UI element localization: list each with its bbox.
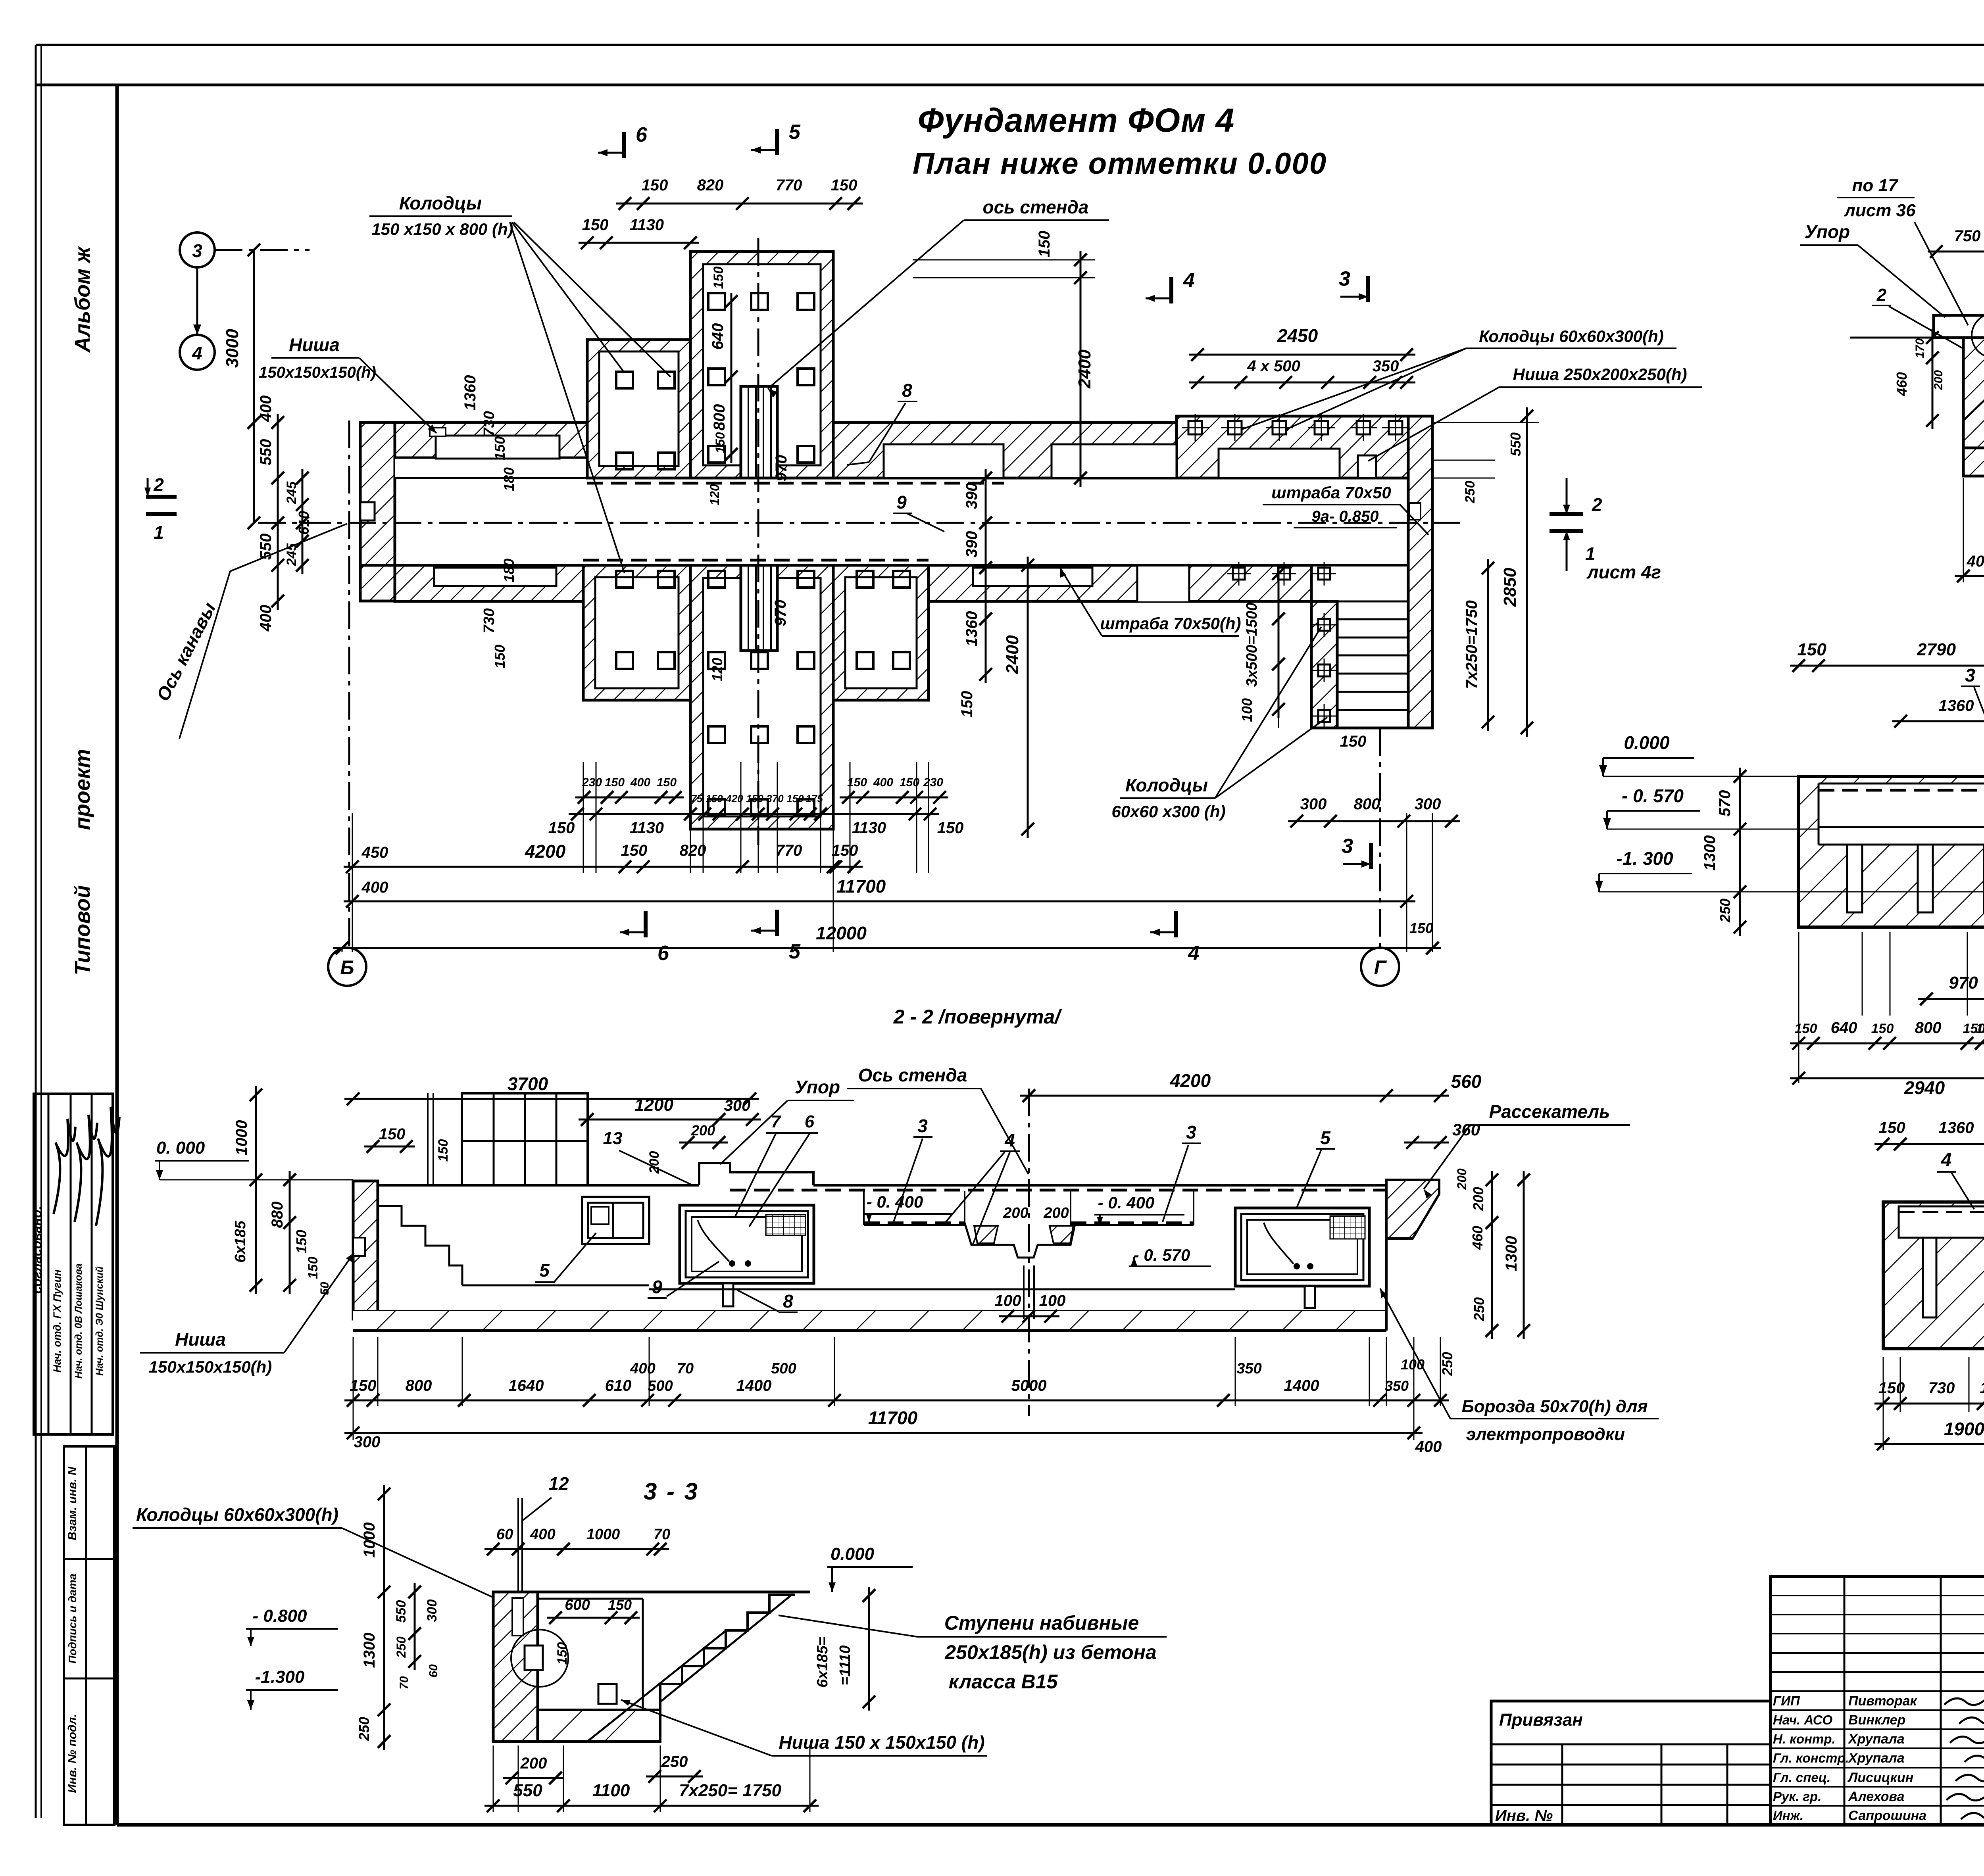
svg-text:1360: 1360 [461, 375, 479, 411]
svg-text:3: 3 [1186, 1122, 1196, 1142]
svg-text:0. 000: 0. 000 [156, 1138, 205, 1158]
svg-text:610: 610 [605, 1377, 632, 1394]
svg-text:Нач. отд. ГХ Пугин: Нач. отд. ГХ Пугин [51, 1269, 63, 1373]
svg-text:150: 150 [1871, 1021, 1894, 1036]
svg-text:6х185: 6х185 [232, 1220, 249, 1263]
svg-text:Подпись и дата: Подпись и дата [66, 1574, 79, 1664]
svg-text:150: 150 [436, 1139, 451, 1162]
svg-text:460: 460 [1894, 372, 1910, 396]
svg-text:3: 3 [192, 240, 202, 261]
svg-text:180: 180 [501, 559, 517, 582]
svg-text:электропроводки: электропроводки [1466, 1425, 1625, 1444]
svg-text:300: 300 [425, 1599, 440, 1622]
svg-text:6: 6 [636, 123, 648, 146]
svg-text:Ниша: Ниша [175, 1329, 226, 1350]
svg-text:3х500=1500: 3х500=1500 [1244, 603, 1260, 687]
svg-text:класса В15: класса В15 [949, 1671, 1058, 1693]
svg-text:250: 250 [1463, 481, 1478, 504]
svg-text:Нач. отд. 0В Лошакова: Нач. отд. 0В Лошакова [73, 1263, 84, 1379]
svg-text:250: 250 [356, 1717, 372, 1741]
svg-text:2400: 2400 [1003, 635, 1022, 674]
svg-text:План ниже отметки 0.000: План ниже отметки 0.000 [913, 147, 1327, 180]
svg-text:150: 150 [831, 177, 857, 194]
svg-text:Ниша 250х200х250(h): Ниша 250х200х250(h) [1513, 365, 1687, 384]
svg-text:500: 500 [771, 1360, 796, 1377]
svg-text:150: 150 [621, 842, 648, 859]
svg-text:Колодцы: Колодцы [399, 193, 482, 213]
svg-text:180: 180 [501, 467, 517, 491]
svg-text:150: 150 [786, 793, 804, 805]
svg-text:1000: 1000 [233, 1120, 250, 1156]
svg-text:70: 70 [398, 1676, 411, 1690]
svg-text:150: 150 [293, 1230, 310, 1254]
svg-text:600: 600 [565, 1597, 590, 1613]
svg-text:100: 100 [1039, 1292, 1066, 1310]
svg-text:400: 400 [530, 1526, 555, 1543]
svg-text:5: 5 [789, 121, 801, 144]
svg-text:730: 730 [481, 411, 498, 436]
svg-text:400: 400 [630, 1360, 655, 1377]
svg-text:- 0.800: - 0.800 [253, 1606, 308, 1626]
svg-text:880: 880 [269, 1202, 286, 1228]
svg-text:12000: 12000 [816, 923, 867, 943]
svg-text:Фундамент ФОм 4: Фундамент ФОм 4 [918, 102, 1234, 139]
svg-text:60х60 х300 (h): 60х60 х300 (h) [1111, 802, 1225, 821]
svg-text:6х185=: 6х185= [814, 1637, 831, 1688]
svg-text:7х250=1750: 7х250=1750 [1463, 600, 1480, 689]
svg-text:1130: 1130 [630, 819, 664, 837]
svg-text:250: 250 [394, 1636, 408, 1658]
svg-text:230: 230 [923, 776, 943, 789]
svg-text:11700: 11700 [868, 1407, 918, 1428]
svg-text:150: 150 [706, 793, 723, 805]
svg-text:560: 560 [1451, 1071, 1482, 1092]
svg-text:2790: 2790 [1917, 640, 1956, 659]
svg-text:4 х 500: 4 х 500 [1247, 357, 1300, 375]
svg-text:Пивторак: Пивторак [1848, 1694, 1918, 1709]
svg-text:2: 2 [153, 474, 164, 495]
svg-text:200: 200 [1455, 1168, 1469, 1190]
svg-text:550: 550 [257, 439, 275, 466]
svg-text:Колодцы 60х60х300(h): Колодцы 60х60х300(h) [136, 1504, 338, 1525]
svg-text:730: 730 [481, 608, 498, 633]
svg-text:400: 400 [361, 879, 388, 896]
svg-text:245: 245 [284, 481, 299, 505]
svg-text:50: 50 [318, 1282, 331, 1295]
svg-text:970: 970 [772, 600, 789, 626]
svg-text:150: 150 [1879, 1119, 1905, 1137]
svg-text:60: 60 [496, 1526, 513, 1543]
svg-text:согласовано:: согласовано: [29, 1206, 44, 1294]
svg-text:150: 150 [1797, 640, 1826, 659]
svg-text:150: 150 [832, 842, 858, 859]
svg-text:200: 200 [1003, 1205, 1028, 1221]
svg-text:150: 150 [379, 1125, 406, 1143]
svg-text:Гл. констр.: Гл. констр. [1773, 1751, 1849, 1765]
svg-text:370: 370 [766, 793, 784, 805]
svg-text:400: 400 [630, 776, 650, 789]
svg-text:лист 4г: лист 4г [1586, 562, 1661, 582]
svg-text:170: 170 [1913, 338, 1926, 358]
svg-text:1: 1 [154, 522, 164, 543]
svg-text:1130: 1130 [630, 216, 664, 234]
svg-text:400: 400 [257, 605, 275, 632]
svg-text:=1110: =1110 [837, 1645, 854, 1685]
svg-text:550: 550 [257, 534, 275, 560]
svg-text:8: 8 [902, 380, 912, 401]
svg-text:250: 250 [661, 1753, 688, 1770]
svg-text:- 0. 400: - 0. 400 [867, 1192, 923, 1211]
svg-text:3 - 3: 3 - 3 [644, 1478, 699, 1505]
svg-text:1640: 1640 [509, 1377, 544, 1394]
svg-text:3: 3 [917, 1116, 928, 1136]
svg-text:Гл. спец.: Гл. спец. [1773, 1770, 1830, 1785]
svg-text:150: 150 [605, 776, 625, 789]
svg-text:100: 100 [995, 1292, 1021, 1310]
svg-text:300: 300 [724, 1097, 751, 1114]
svg-text:1360: 1360 [1939, 1119, 1974, 1137]
svg-text:300: 300 [354, 1433, 381, 1451]
svg-text:400: 400 [257, 396, 275, 422]
svg-text:Нач. АСО: Нач. АСО [1773, 1713, 1833, 1727]
svg-text:400: 400 [873, 776, 893, 789]
svg-text:640: 640 [709, 323, 727, 350]
svg-text:1300: 1300 [1701, 835, 1719, 871]
svg-text:Типовой: Типовой [71, 885, 94, 975]
svg-text:460: 460 [1469, 1226, 1486, 1250]
svg-text:9а- 0.850: 9а- 0.850 [1311, 508, 1378, 525]
svg-text:2: 2 [1592, 494, 1602, 515]
svg-text:8: 8 [783, 1291, 793, 1311]
svg-text:770: 770 [776, 842, 802, 859]
svg-text:9: 9 [896, 492, 907, 513]
svg-text:штраба 70х50(h): штраба 70х50(h) [1100, 614, 1241, 633]
svg-text:150: 150 [555, 1642, 570, 1665]
svg-text:штраба 70х50: штраба 70х50 [1271, 483, 1391, 502]
svg-text:проект: проект [71, 749, 94, 830]
svg-text:4200: 4200 [1170, 1070, 1211, 1091]
svg-text:3: 3 [1339, 267, 1350, 290]
svg-text:- 0. 570: - 0. 570 [1134, 1246, 1190, 1264]
svg-text:770: 770 [776, 177, 802, 194]
svg-text:2850: 2850 [1500, 568, 1520, 607]
svg-text:Рассекатель: Рассекатель [1489, 1101, 1610, 1122]
svg-text:лист 36: лист 36 [1844, 201, 1916, 220]
svg-text:3000: 3000 [223, 329, 242, 368]
svg-text:150: 150 [306, 1257, 321, 1279]
svg-text:150: 150 [608, 1597, 632, 1613]
svg-text:1000: 1000 [361, 1523, 378, 1558]
svg-text:400: 400 [1967, 553, 1984, 570]
svg-text:150: 150 [711, 267, 726, 289]
svg-text:7: 7 [771, 1112, 782, 1131]
svg-text:390: 390 [963, 483, 980, 509]
svg-text:Хрупала: Хрупала [1848, 1732, 1905, 1747]
svg-text:Н. контр.: Н. контр. [1773, 1732, 1836, 1746]
svg-text:350: 350 [1373, 357, 1399, 375]
svg-text:ГИП: ГИП [1773, 1694, 1800, 1708]
svg-text:Взам. инв. N: Взам. инв. N [66, 1466, 79, 1540]
svg-text:150: 150 [1795, 1021, 1817, 1036]
svg-text:5000: 5000 [1011, 1377, 1047, 1394]
svg-text:390: 390 [963, 531, 980, 558]
svg-text:1360: 1360 [963, 611, 980, 647]
svg-text:970: 970 [1949, 973, 1978, 993]
svg-text:60: 60 [427, 1664, 440, 1678]
svg-text:- 0. 400: - 0. 400 [1098, 1193, 1154, 1212]
svg-text:150: 150 [492, 436, 508, 460]
svg-text:4: 4 [1004, 1130, 1015, 1150]
svg-text:Винклер: Винклер [1848, 1713, 1905, 1728]
svg-text:Нач. отд. Э0 Шунский: Нач. отд. Э0 Шунский [94, 1266, 105, 1375]
svg-text:120: 120 [707, 484, 722, 505]
svg-text:Инв. №: Инв. № [1495, 1807, 1553, 1824]
svg-text:200: 200 [520, 1755, 547, 1772]
svg-text:Ступени набивные: Ступени набивные [944, 1612, 1139, 1634]
svg-text:2940: 2940 [1904, 1077, 1945, 1098]
svg-text:230: 230 [582, 776, 602, 789]
svg-text:820: 820 [697, 177, 724, 194]
svg-text:820: 820 [680, 842, 706, 859]
svg-text:1400: 1400 [736, 1377, 772, 1394]
svg-text:2450: 2450 [1277, 325, 1318, 346]
svg-text:800: 800 [711, 404, 728, 431]
svg-text:350: 350 [1385, 1378, 1409, 1394]
svg-text:Сапрошина: Сапрошина [1848, 1808, 1926, 1823]
svg-text:по 17: по 17 [1852, 176, 1899, 195]
svg-text:Привязан: Привязан [1499, 1710, 1583, 1730]
svg-text:Упор: Упор [1805, 221, 1850, 242]
svg-text:150: 150 [1409, 920, 1433, 936]
svg-text:Ниша: Ниша [289, 334, 340, 355]
svg-text:Альбом ж: Альбом ж [71, 246, 94, 353]
svg-text:250х185(h) из бетона: 250х185(h) из бетона [944, 1641, 1156, 1663]
svg-text:11700: 11700 [836, 876, 886, 897]
svg-text:250: 250 [1717, 899, 1733, 923]
svg-text:400: 400 [1415, 1438, 1442, 1455]
svg-text:150: 150 [492, 645, 508, 668]
svg-text:-1.300: -1.300 [255, 1667, 305, 1687]
svg-text:350: 350 [1236, 1360, 1261, 1377]
svg-text:150: 150 [642, 177, 668, 194]
svg-text:1300: 1300 [1503, 1236, 1520, 1271]
svg-text:6: 6 [805, 1112, 815, 1131]
svg-text:450: 450 [361, 844, 388, 861]
svg-text:2: 2 [1876, 285, 1887, 305]
svg-text:2 - 2 /повернута/: 2 - 2 /повернута/ [893, 1006, 1062, 1028]
svg-text:Б: Б [340, 956, 354, 979]
svg-text:9: 9 [652, 1277, 662, 1297]
svg-text:500: 500 [648, 1378, 673, 1394]
svg-text:800: 800 [1354, 795, 1380, 813]
svg-text:Рук. гр.: Рук. гр. [1773, 1789, 1821, 1804]
svg-text:12: 12 [548, 1473, 569, 1494]
svg-text:200: 200 [1043, 1205, 1069, 1221]
svg-text:200: 200 [647, 1151, 662, 1174]
svg-text:730: 730 [1928, 1379, 1955, 1397]
svg-text:800: 800 [1915, 1019, 1942, 1037]
svg-text:-1. 300: -1. 300 [1616, 848, 1673, 869]
svg-text:150: 150 [548, 819, 575, 837]
svg-text:150: 150 [1036, 231, 1053, 257]
svg-text:550: 550 [1507, 432, 1524, 456]
svg-text:75: 75 [691, 793, 703, 805]
svg-text:Инв. № подл.: Инв. № подл. [66, 1714, 79, 1793]
svg-text:4: 4 [192, 343, 202, 363]
svg-text:150х150х150(h): 150х150х150(h) [259, 364, 376, 381]
svg-text:4: 4 [1941, 1150, 1952, 1171]
svg-text:Борозда 50х70(h) для: Борозда 50х70(h) для [1462, 1397, 1648, 1416]
svg-text:150: 150 [958, 691, 976, 718]
svg-text:1300: 1300 [361, 1633, 378, 1668]
svg-text:1130: 1130 [852, 819, 886, 837]
svg-text:5: 5 [789, 940, 801, 963]
svg-text:70: 70 [654, 1526, 670, 1543]
svg-text:13: 13 [603, 1129, 623, 1148]
svg-text:Упор: Упор [795, 1077, 840, 1097]
svg-text:Ось стенда: Ось стенда [858, 1065, 967, 1085]
svg-text:1360: 1360 [1939, 697, 1974, 714]
svg-text:200: 200 [1470, 1187, 1486, 1211]
svg-text:0.000: 0.000 [1624, 732, 1670, 753]
svg-text:Хрупала: Хрупала [1848, 1751, 1905, 1766]
svg-text:3: 3 [1342, 835, 1353, 858]
svg-text:Колодцы 60х60х300(h): Колодцы 60х60х300(h) [1479, 327, 1664, 346]
svg-text:5: 5 [539, 1260, 550, 1281]
svg-text:ось стенда: ось стенда [982, 197, 1088, 217]
svg-text:300: 300 [1415, 795, 1441, 813]
svg-text:150: 150 [350, 1377, 377, 1394]
svg-text:150: 150 [582, 216, 609, 234]
svg-text:150: 150 [746, 793, 763, 805]
svg-text:150: 150 [657, 776, 677, 789]
svg-text:245: 245 [284, 543, 299, 566]
svg-text:Колодцы: Колодцы [1125, 775, 1208, 795]
svg-text:120: 120 [709, 658, 725, 682]
svg-text:250: 250 [1439, 1352, 1455, 1376]
svg-text:200: 200 [1932, 370, 1945, 390]
svg-text:150: 150 [937, 819, 964, 837]
svg-text:100: 100 [1401, 1356, 1425, 1373]
svg-text:4200: 4200 [525, 841, 566, 862]
svg-text:7х250= 1750: 7х250= 1750 [679, 1781, 782, 1800]
svg-text:4: 4 [1183, 269, 1195, 292]
svg-text:Г: Г [1374, 956, 1387, 979]
svg-text:2400: 2400 [1075, 349, 1094, 389]
svg-text:70: 70 [677, 1360, 694, 1377]
svg-text:3700: 3700 [508, 1073, 548, 1094]
svg-text:200: 200 [691, 1122, 715, 1139]
svg-text:- 0. 570: - 0. 570 [1622, 785, 1684, 806]
svg-text:4: 4 [1188, 942, 1200, 965]
svg-text:300: 300 [1300, 795, 1327, 813]
svg-text:3: 3 [1965, 665, 1975, 685]
svg-text:150 х150 х 800 (h): 150 х150 х 800 (h) [371, 220, 513, 238]
svg-text:750: 750 [1954, 227, 1981, 245]
svg-text:1: 1 [1585, 543, 1596, 564]
svg-text:610: 610 [296, 511, 312, 535]
svg-text:6: 6 [657, 942, 669, 965]
svg-text:1400: 1400 [1284, 1377, 1319, 1394]
svg-text:Инж.: Инж. [1773, 1808, 1803, 1823]
svg-text:250: 250 [1471, 1297, 1487, 1321]
svg-text:120: 120 [1976, 1021, 1984, 1036]
svg-text:Лисицкин: Лисицкин [1847, 1770, 1913, 1785]
svg-text:150: 150 [713, 432, 727, 453]
svg-text:800: 800 [406, 1377, 432, 1394]
svg-text:150: 150 [1340, 733, 1367, 750]
svg-text:180: 180 [1980, 1379, 1984, 1397]
svg-text:150х150х150(h): 150х150х150(h) [149, 1358, 272, 1376]
svg-text:5: 5 [1320, 1127, 1331, 1148]
svg-text:550: 550 [513, 1781, 542, 1800]
svg-text:1100: 1100 [592, 1781, 630, 1800]
svg-text:550: 550 [394, 1600, 409, 1623]
svg-text:1000: 1000 [586, 1526, 620, 1543]
svg-text:1900: 1900 [1944, 1419, 1984, 1439]
svg-text:Алехова: Алехова [1848, 1789, 1905, 1804]
svg-text:570: 570 [1716, 790, 1734, 817]
svg-text:0.000: 0.000 [831, 1544, 875, 1564]
svg-text:970: 970 [773, 455, 790, 482]
svg-text:100: 100 [1239, 698, 1255, 722]
svg-text:640: 640 [1831, 1019, 1857, 1037]
svg-text:1200: 1200 [634, 1095, 673, 1115]
